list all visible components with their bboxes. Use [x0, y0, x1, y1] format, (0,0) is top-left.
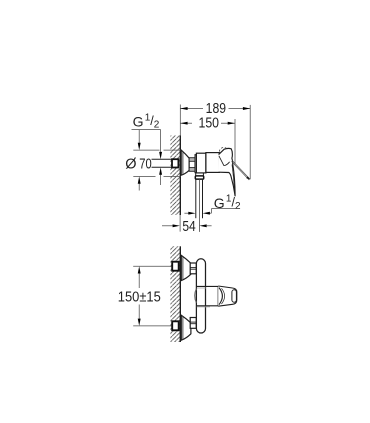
cartridge dome arc bulging left	[195, 289, 197, 303]
handle inner contour lines	[219, 156, 230, 166]
G 1/2 leader upper arrow to pipe top	[160, 130, 162, 154]
shower outlet pipe (top view)	[195, 179, 197, 218]
dimension O70 lower arrow	[138, 183, 140, 191]
150±15 bottom extension line	[133, 325, 172, 327]
dimension 54 row	[162, 225, 173, 227]
wall face extension line down to 54 dimension	[179, 215, 181, 232]
150±15 top extension line	[133, 265, 172, 267]
dimension 189 line	[180, 107, 250, 110]
supply pipe stub (top view)	[152, 158, 172, 160]
handle neck lines (bottom view)	[197, 285, 218, 287]
bottom union square in wall	[172, 321, 179, 330]
knob outline (bottom view)	[218, 286, 237, 306]
body capsule (bottom view)	[196, 259, 205, 333]
body section A (top view)	[196, 153, 206, 173]
pipe centre line extended as extension for 54	[198, 179, 200, 232]
top union square in wall	[172, 262, 179, 271]
dimension 150±15 line and arrows	[138, 273, 140, 289]
body section B cartridge housing (top view)	[206, 153, 219, 173]
neck shading lines	[197, 287, 206, 289]
wall face line (bottom view)	[179, 246, 181, 342]
outlet collar below body (top view)	[195, 173, 197, 176]
wall face line (top view)	[179, 136, 181, 216]
wall face extension line up to dimension rows	[179, 105, 181, 136]
top hex nut (bottom view)	[190, 263, 196, 274]
svg-text:150±15: 150±15	[118, 289, 161, 305]
knob joint line	[217, 286, 219, 306]
top escutcheon cone (bottom view)	[181, 255, 191, 280]
knob inner arcs	[219, 288, 222, 305]
dimension 150 line	[180, 122, 235, 125]
svg-text:150: 150	[199, 115, 220, 131]
dimension O70 upper arrow	[138, 130, 140, 145]
body rear flange ring (top view)	[195, 155, 196, 173]
handle swing travel thin double line	[232, 161, 250, 180]
escutcheon cone (top view)	[181, 150, 189, 175]
lever handle (top view)	[219, 148, 236, 196]
knob end cap	[232, 290, 237, 302]
wall hatching (bottom view)	[170, 246, 180, 342]
svg-text:Ø: Ø	[125, 157, 136, 173]
underline of G 1/2 label	[132, 129, 161, 131]
wall hatching (top view)	[170, 136, 180, 216]
extension line right of 150	[234, 119, 236, 164]
O70 bottom extension lines	[133, 175, 155, 177]
dashed alternate handle position	[219, 147, 227, 151]
svg-text:G1/2: G1/2	[214, 194, 241, 212]
bottom escutcheon cone (bottom view)	[181, 315, 191, 340]
union nut square in wall (top view)	[172, 159, 178, 167]
G 1/2 leader lower arrow to pipe bottom	[160, 174, 162, 186]
underline of bottom G 1/2 label	[211, 208, 237, 210]
svg-text:54: 54	[182, 219, 195, 235]
svg-text:G1/2: G1/2	[133, 112, 160, 130]
hex connector nut (top view)	[189, 158, 195, 171]
O70 top extension lines	[133, 149, 159, 151]
svg-text:70: 70	[139, 157, 151, 173]
outlet thread arrows at pipe edges	[184, 212, 189, 214]
bottom hex nut (bottom view)	[190, 318, 196, 329]
extension line right of 189	[249, 105, 251, 179]
